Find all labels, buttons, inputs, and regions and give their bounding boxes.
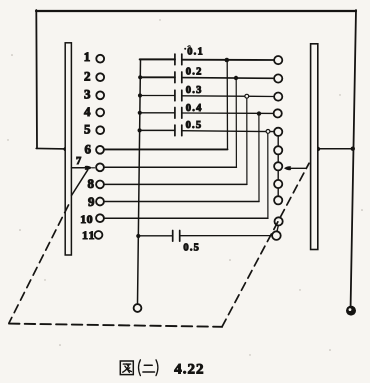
wire: row11 bus to capacitor C6	[138, 235, 172, 237]
riser wire row5 to row10	[267, 131, 269, 218]
svg-text:0.5: 0.5	[186, 120, 203, 131]
wire: row5 bus to capacitor C5	[140, 129, 175, 131]
wire: center common bus	[138, 59, 141, 304]
left screening plate	[65, 43, 71, 255]
svg-text:7: 7	[76, 156, 81, 167]
junction: riser4 on row4	[257, 111, 261, 115]
terminal circle left row7	[96, 163, 104, 171]
wire: row3 bus to capacitor C3	[140, 95, 175, 97]
junction: riser1 on row1	[225, 58, 230, 63]
wire: C3 to terminal strip row3	[182, 95, 274, 98]
svg-text:0: 0	[87, 212, 93, 226]
terminal circle left row11	[95, 231, 103, 239]
wire: C4 to terminal strip row4	[182, 112, 274, 114]
junction: bus row3	[138, 93, 142, 97]
capacitor C4 0.4 plates	[174, 108, 176, 119]
terminal circle left row6	[96, 146, 104, 154]
junction: bus row11	[136, 234, 140, 238]
wire: outer shield right edge down to terminal	[351, 10, 356, 306]
svg-text:0.4: 0.4	[186, 103, 203, 114]
wire: outer shield left edge	[35, 10, 38, 148]
terminal strip circle right row9	[274, 196, 282, 204]
junction: riser3 on row3 small loop	[245, 94, 249, 98]
terminal strip circle right row6	[274, 146, 282, 154]
svg-text:0.2: 0.2	[186, 66, 203, 77]
svg-text:0.3: 0.3	[186, 85, 203, 96]
wire: C2 to terminal strip row2	[182, 77, 274, 80]
wire: C6 to terminal strip row11	[180, 235, 273, 237]
annotation arrow: left plate to terminal 7	[72, 167, 86, 169]
junction: right edge and plate wire	[351, 147, 355, 151]
svg-text:0.5: 0.5	[183, 242, 200, 253]
svg-text:3: 3	[84, 87, 91, 102]
terminal strip circle right row7	[274, 162, 282, 170]
svg-text:4.22: 4.22	[174, 362, 204, 378]
dashed chassis right slant	[222, 163, 309, 326]
wire: right plate to shield right edge	[318, 148, 353, 150]
terminal circle left row5	[96, 126, 104, 134]
terminal strip circle right row3	[274, 93, 282, 101]
caption 二 glyph	[144, 364, 152, 366]
svg-text:0.1: 0.1	[187, 47, 204, 58]
terminal circle left row9	[96, 198, 104, 206]
capacitor C1 0.1 plates	[174, 54, 176, 65]
svg-text:5: 5	[84, 122, 91, 137]
svg-text:9: 9	[88, 194, 95, 209]
terminal strip circle right row4	[274, 109, 282, 117]
riser wire row1 to row6	[226, 60, 228, 149]
capacitor C3 0.3 plates	[174, 90, 176, 101]
wire: outer shield top edge	[36, 10, 356, 12]
link wire strip 7-8	[277, 170, 279, 180]
capacitor C2 0.2 plates	[174, 72, 176, 83]
junction: riser5 on row5 small loop	[266, 130, 270, 134]
junction: riser2 on row2	[234, 76, 238, 80]
capacitor C6 0.5 plates	[172, 231, 174, 242]
wire: row1 bus to capacitor C1	[140, 58, 175, 60]
caption parentheses	[139, 360, 141, 376]
terminal circle left row2	[96, 73, 104, 81]
svg-text:1: 1	[84, 49, 91, 64]
wire: row10 terminal to riser5	[104, 217, 268, 219]
right screening plate	[311, 44, 318, 250]
link wire strip 6-7	[277, 154, 279, 162]
caption 图 glyph	[120, 361, 133, 375]
riser wire row2 to row7	[235, 78, 237, 167]
capacitor C5 0.5 plates	[174, 125, 176, 136]
terminal circle left row4	[96, 109, 104, 117]
svg-text:1: 1	[82, 228, 88, 242]
svg-text:1: 1	[80, 212, 86, 226]
wire: row4 bus to capacitor C4	[140, 112, 175, 114]
junction: bus row2	[138, 75, 142, 79]
terminal strip circle right row1	[274, 56, 282, 64]
stray tick above 0.1	[184, 48, 186, 50]
terminal: bus bottom circle	[134, 304, 142, 312]
svg-text:6: 6	[85, 141, 92, 156]
svg-text:1: 1	[89, 228, 95, 242]
wire: row6 terminal to riser1	[104, 148, 227, 150]
wire: row7 terminal to riser2	[104, 166, 236, 168]
terminal strip circle right row8	[274, 180, 282, 188]
link wire strip 5-6	[277, 136, 279, 146]
terminal circle left row10	[96, 214, 104, 222]
wire: row2 bus to capacitor C2	[140, 76, 175, 78]
svg-text:4: 4	[84, 104, 91, 119]
svg-text:8: 8	[88, 176, 95, 191]
wire: C1 to terminal strip row1	[182, 59, 274, 61]
terminal strip circle right row10	[275, 217, 283, 225]
terminal strip circle right row2	[274, 74, 282, 82]
annotation arrow: chassis to strip terminal 7	[290, 167, 307, 169]
wire: row9 terminal to riser4	[104, 201, 259, 203]
dashed chassis left slant	[72, 170, 88, 196]
wire: shield left stub to left plate	[36, 147, 66, 150]
wire: C5 to terminal strip row5	[182, 130, 274, 133]
wire: row8 terminal to riser3	[104, 183, 247, 185]
terminal: bottom-right binding post	[346, 306, 356, 316]
riser wire row4 to row9	[258, 114, 260, 202]
dashed chassis bottom edge	[9, 324, 222, 327]
svg-text:2: 2	[84, 68, 91, 83]
terminal strip circle right row5	[274, 128, 282, 136]
terminal circle left row3	[96, 91, 104, 99]
riser wire row3 to row8	[246, 96, 248, 184]
junction: bus row4	[138, 111, 142, 115]
junction: right plate to wire	[316, 147, 320, 151]
terminal strip circle right row11	[272, 231, 281, 240]
junction: bus row5	[138, 128, 142, 132]
junction: left plate to shield	[63, 147, 67, 151]
link wire strip 10-11	[277, 226, 278, 232]
terminal circle left row1	[96, 55, 104, 63]
link wire strip 8-9	[277, 188, 279, 196]
terminal circle left row8	[96, 181, 104, 189]
